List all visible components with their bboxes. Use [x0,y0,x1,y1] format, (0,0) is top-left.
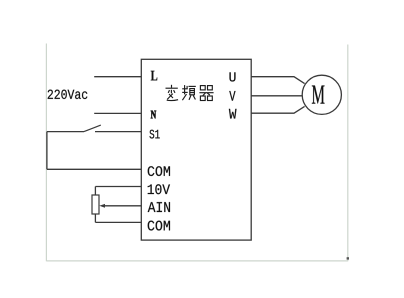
terminal label N [151,111,156,119]
terminal label AIN [148,202,170,212]
inverter box U1 变频器 [141,59,251,240]
wire COM bottom [95,221,141,223]
terminal label S1 [150,130,160,139]
motor label M [312,86,325,104]
terminal label V [229,91,235,101]
wiper arrowhead [99,204,105,208]
wire to switch S1 left segment [47,131,84,133]
corner mark [347,257,349,259]
terminal label COM lower [148,221,170,231]
potentiometer RP body [92,195,99,214]
terminal label 10V [148,184,170,194]
wire N input [94,112,141,114]
terminal label W [229,109,237,119]
wire V output [251,95,302,97]
motor circle [302,75,341,114]
terminal label L [151,71,158,81]
wire AIN to wiper [105,205,142,207]
switch S1 blade [84,125,101,132]
label 220Vac [48,90,88,99]
wire switch S1 to terminal S1 [95,131,141,133]
wire loop bottom to COM terminal [47,168,141,170]
title 变频器 glyph 器 [199,86,213,101]
potentiometer RP bottom lead [94,214,96,222]
terminal label U [230,72,236,81]
title 变频器 glyph 变 [166,85,179,101]
terminal label COM [148,166,170,176]
wire S1 loop left vertical [46,132,48,170]
potentiometer RP top lead [94,187,96,196]
wire W output [251,106,304,113]
wire L input [94,76,141,78]
wire 10V to potentiometer top [95,186,141,188]
title 变频器 glyph 频 [182,85,196,100]
wire U output [251,77,304,84]
